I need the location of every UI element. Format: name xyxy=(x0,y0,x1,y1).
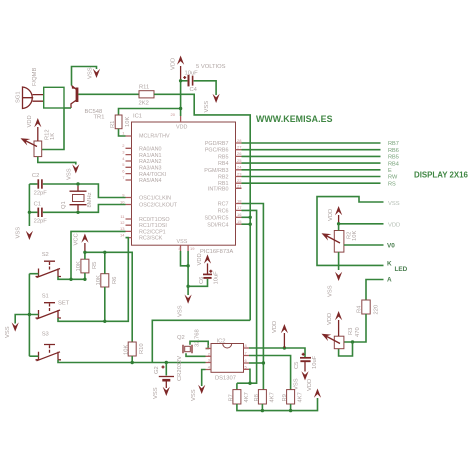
svg-text:12: 12 xyxy=(120,220,125,225)
svg-text:5: 5 xyxy=(245,364,248,369)
svg-text:R10: R10 xyxy=(139,343,145,354)
svg-text:RC3/SCK: RC3/SCK xyxy=(139,236,163,242)
wire R6 bottom xyxy=(104,287,106,321)
wire C1 to OSC2 xyxy=(43,205,126,213)
wire S3 left lead xyxy=(29,355,38,357)
svg-text:28: 28 xyxy=(237,138,242,143)
power VDD main 5V xyxy=(177,56,184,81)
svg-text:VSS: VSS xyxy=(191,389,197,401)
svg-text:3: 3 xyxy=(208,358,211,363)
resistor R1 xyxy=(115,115,122,129)
wire PIC VSS pins join xyxy=(181,251,189,295)
pin stub 20 top xyxy=(180,116,182,122)
wire R7 top xyxy=(236,383,238,389)
op-amp IC1 PIC16F873A box xyxy=(132,122,236,245)
wire R8 bottom xyxy=(261,404,263,411)
switch S2 xyxy=(36,261,62,277)
pin numbers right xyxy=(237,138,242,224)
svg-text:16: 16 xyxy=(237,212,242,217)
wire C2 left xyxy=(29,183,37,185)
ground VSS at R2 xyxy=(335,272,342,281)
transistor Q TR1 BC548 xyxy=(71,85,77,108)
wire V0 line xyxy=(344,244,384,246)
svg-text:CR2032V: CR2032V xyxy=(177,356,183,381)
svg-text:OSC1/CLKIN: OSC1/CLKIN xyxy=(139,196,171,202)
crystal Q1 xyxy=(70,186,87,211)
svg-text:R6: R6 xyxy=(112,277,118,284)
svg-text:14: 14 xyxy=(120,232,125,237)
node Q1 bottom junction xyxy=(76,211,79,214)
svg-text:RB4: RB4 xyxy=(218,161,229,167)
svg-text:27: 27 xyxy=(237,145,242,150)
wire display VDD line xyxy=(339,223,384,225)
svg-text:10K: 10K xyxy=(124,345,130,355)
wire S3 output line xyxy=(58,360,206,363)
wire base to R11 xyxy=(78,93,139,95)
ground VSS at C4 xyxy=(213,94,220,103)
wire DS SCL line xyxy=(249,362,263,364)
wire C1 left xyxy=(29,211,37,213)
power VDD at DS VCC xyxy=(281,324,288,348)
svg-text:21: 21 xyxy=(237,183,242,188)
svg-text:9: 9 xyxy=(122,192,125,197)
buzzer body box xyxy=(44,87,64,108)
wire C6 bottom xyxy=(188,279,207,286)
ground VSS at C5 xyxy=(301,371,308,380)
svg-text:10K: 10K xyxy=(352,231,358,241)
svg-text:R3: R3 xyxy=(348,328,354,335)
wire S2 output xyxy=(58,277,85,280)
svg-text:K: K xyxy=(387,261,392,268)
svg-text:VSS: VSS xyxy=(388,201,400,207)
svg-text:VDD: VDD xyxy=(171,58,177,70)
svg-text:VSS: VSS xyxy=(328,285,334,297)
wire R5 bottom xyxy=(84,273,86,279)
power VDD at R3 xyxy=(335,311,342,336)
node VDD-C4 junction xyxy=(179,79,182,82)
switch S3 xyxy=(36,345,62,361)
node R9 rail junction xyxy=(289,409,292,412)
svg-text:7: 7 xyxy=(245,351,248,356)
ground VSS at DS xyxy=(198,385,205,394)
node R5 top junction xyxy=(83,251,86,254)
wire R11 to main vertical xyxy=(154,94,250,320)
resistor R6 xyxy=(101,274,109,287)
resistor R9 xyxy=(287,390,295,404)
svg-text:PGM/RB3: PGM/RB3 xyxy=(204,168,228,174)
wire pullup bottom rail xyxy=(237,398,318,411)
svg-text:SET: SET xyxy=(58,301,70,307)
svg-text:10uF: 10uF xyxy=(312,355,318,369)
svg-text:4: 4 xyxy=(208,365,211,370)
svg-text:INT/RB0: INT/RB0 xyxy=(208,186,229,192)
wire RC5 to main vertical xyxy=(242,216,251,218)
svg-text:R8: R8 xyxy=(254,394,260,401)
node VSS pins junction xyxy=(186,264,189,267)
svg-text:VDD: VDD xyxy=(388,223,400,229)
svg-text:10uF: 10uF xyxy=(214,271,220,285)
svg-text:F/QMB: F/QMB xyxy=(32,68,38,86)
svg-text:RA1/AN1: RA1/AN1 xyxy=(139,153,161,159)
svg-text:4K7: 4K7 xyxy=(298,392,304,402)
svg-text:C1: C1 xyxy=(34,201,41,207)
svg-text:VDD: VDD xyxy=(27,115,33,127)
svg-text:VDD: VDD xyxy=(197,253,203,265)
ground VSS at caps xyxy=(26,231,33,240)
power VDD at rail xyxy=(314,389,321,398)
svg-text:1: 1 xyxy=(122,131,125,136)
svg-text:S1: S1 xyxy=(42,294,49,300)
node VDD-R1 junction xyxy=(179,107,182,110)
svg-text:RB4: RB4 xyxy=(388,161,399,167)
wire RB6 line xyxy=(242,149,381,151)
pin numbers DS left xyxy=(208,344,211,370)
svg-text:3: 3 xyxy=(122,149,125,154)
wire RC6 to R7 line xyxy=(237,210,257,383)
svg-text:8MHz: 8MHz xyxy=(87,192,93,207)
svg-text:6: 6 xyxy=(122,168,125,173)
svg-text:VDD: VDD xyxy=(272,321,278,333)
svg-text:VDD: VDD xyxy=(327,313,333,325)
svg-text:10uF: 10uF xyxy=(185,71,199,77)
pin stubs 8 19 bottom xyxy=(181,245,189,251)
svg-text:VDD: VDD xyxy=(307,379,313,391)
svg-text:R1: R1 xyxy=(110,121,116,128)
wire RB5 line xyxy=(242,155,381,157)
capacitor C5 xyxy=(300,353,311,361)
svg-text:20: 20 xyxy=(171,112,176,117)
svg-text:RC2/CCP1: RC2/CCP1 xyxy=(139,229,166,235)
svg-text:VSS: VSS xyxy=(88,67,94,79)
battery G2 xyxy=(159,377,174,389)
svg-text:RA2/AN2: RA2/AN2 xyxy=(139,159,161,165)
wire Q2 to X1 xyxy=(190,341,208,348)
wire R1 top line xyxy=(119,109,181,116)
potentiometer R12 xyxy=(19,135,42,157)
node VDD-C5 junction xyxy=(283,346,286,349)
svg-text:VSS: VSS xyxy=(16,227,22,239)
node S1 ground junction xyxy=(28,313,31,316)
pin stubs DS right xyxy=(244,348,250,369)
svg-text:VSS: VSS xyxy=(178,305,184,317)
pin names right column xyxy=(204,141,228,228)
svg-text:LED: LED xyxy=(395,266,408,273)
svg-text:VDD: VDD xyxy=(328,209,334,221)
wire C4 left xyxy=(181,80,188,82)
svg-text:RC1/T1OSI: RC1/T1OSI xyxy=(139,223,167,229)
svg-text:RA4/T0CKI: RA4/T0CKI xyxy=(139,172,166,178)
svg-text:5 VOLTIOS: 5 VOLTIOS xyxy=(196,64,226,70)
pin stubs right xyxy=(236,143,242,224)
pin names left column xyxy=(139,134,178,242)
svg-text:13: 13 xyxy=(120,226,125,231)
svg-text:VCC: VCC xyxy=(74,233,80,245)
svg-text:11: 11 xyxy=(120,214,125,219)
wire RC7 to SCL R8 xyxy=(242,204,264,390)
svg-text:22pF: 22pF xyxy=(34,219,48,225)
svg-text:RB5: RB5 xyxy=(218,154,229,160)
wire Q2 to X2 xyxy=(186,353,206,356)
wire S2 left lead xyxy=(29,273,38,275)
svg-text:4K7: 4K7 xyxy=(270,392,276,402)
resistor R11 xyxy=(139,91,154,98)
svg-text:R7: R7 xyxy=(229,394,235,401)
node Q1 top junction xyxy=(76,182,79,185)
svg-text:SG1: SG1 xyxy=(16,91,22,103)
node R3 wiper junction xyxy=(351,340,354,343)
power VCC at R5 xyxy=(81,234,88,253)
node VSS C6 junction xyxy=(186,285,189,288)
svg-text:2: 2 xyxy=(208,351,211,356)
svg-text:10K: 10K xyxy=(96,275,102,285)
wire R5 top xyxy=(84,252,86,259)
power VDD at R2 xyxy=(335,206,342,224)
wire DS SQW to R9 xyxy=(249,356,291,390)
wire A line to R4 xyxy=(366,280,384,301)
node RC4 junction xyxy=(249,223,252,226)
wire S1 output to RC3 xyxy=(58,238,128,322)
svg-text:VDD: VDD xyxy=(176,125,187,131)
power VDD at R12 xyxy=(34,118,41,141)
svg-text:10: 10 xyxy=(120,199,125,204)
svg-text:E: E xyxy=(388,168,392,174)
svg-text:32.768: 32.768 xyxy=(195,329,201,347)
node battery junction xyxy=(165,361,168,364)
pin numbers DS right xyxy=(245,343,248,369)
node R2 top junction xyxy=(337,222,340,225)
wire R2 top lead xyxy=(338,224,340,231)
svg-text:RB7: RB7 xyxy=(388,141,399,147)
svg-text:C6: C6 xyxy=(199,277,205,284)
resistor R7 xyxy=(233,390,241,404)
svg-text:RA5/AN4: RA5/AN4 xyxy=(139,178,161,184)
svg-text:22pF: 22pF xyxy=(34,191,48,197)
svg-text:22: 22 xyxy=(237,178,242,183)
ground VSS at battery xyxy=(163,387,170,396)
svg-text:IC1: IC1 xyxy=(133,114,142,120)
resistor R8 xyxy=(258,390,266,404)
node R6 bottom junction xyxy=(103,320,106,323)
svg-text:C4: C4 xyxy=(190,87,198,93)
svg-text:4: 4 xyxy=(122,156,125,161)
svg-text:RA0/AN0: RA0/AN0 xyxy=(139,146,161,152)
svg-text:Q1: Q1 xyxy=(61,201,67,209)
pin stubs left xyxy=(126,136,132,238)
pin numbers left xyxy=(120,131,125,238)
wire RS line xyxy=(242,182,381,184)
wire C4 right to VSS xyxy=(194,81,217,95)
node SCL junction xyxy=(262,361,265,364)
node R8 rail junction xyxy=(261,409,264,412)
svg-text:RA3/AN3: RA3/AN3 xyxy=(139,165,161,171)
svg-text:17: 17 xyxy=(237,205,242,210)
resistor R4 xyxy=(362,300,370,314)
svg-text:PIC16F873A: PIC16F873A xyxy=(200,249,233,255)
svg-text:470: 470 xyxy=(355,327,361,337)
svg-text:VSS: VSS xyxy=(5,326,11,338)
capacitor C1 xyxy=(38,208,42,217)
crystal Q2 xyxy=(183,345,192,353)
svg-text:8: 8 xyxy=(245,343,248,348)
wire DS VCC line xyxy=(249,348,305,358)
svg-text:220: 220 xyxy=(374,305,380,315)
node SDA junction xyxy=(248,382,251,385)
polarity plus battery xyxy=(162,366,165,369)
svg-text:OSC2/CLKOUT: OSC2/CLKOUT xyxy=(139,203,178,209)
wire buzzer bottom to pot wiper xyxy=(42,108,64,150)
wire RC4 to main vertical xyxy=(242,223,251,225)
svg-text:SDO/RC5: SDO/RC5 xyxy=(205,215,229,221)
svg-text:7: 7 xyxy=(122,175,125,180)
svg-text:G2: G2 xyxy=(154,366,160,374)
svg-text:TR1: TR1 xyxy=(94,115,105,121)
svg-text:R5: R5 xyxy=(92,262,98,269)
svg-text:VSS: VSS xyxy=(177,239,188,245)
wire emitter to buzzer xyxy=(64,107,71,109)
svg-text:19: 19 xyxy=(190,246,195,251)
svg-text:RC0/T1OSO: RC0/T1OSO xyxy=(139,217,170,223)
svg-text:C5: C5 xyxy=(294,362,300,369)
wire R9 bottom xyxy=(290,404,292,411)
svg-text:1K: 1K xyxy=(50,133,56,140)
svg-text:18: 18 xyxy=(237,198,242,203)
wire R12 bottom xyxy=(38,157,76,165)
svg-text:RC6: RC6 xyxy=(218,208,229,214)
svg-text:RB6: RB6 xyxy=(388,148,399,154)
wire R6 top xyxy=(104,252,106,273)
svg-text:DISPLAY 2X16: DISPLAY 2X16 xyxy=(414,171,469,180)
svg-text:S3: S3 xyxy=(42,332,49,338)
svg-text:RS: RS xyxy=(388,181,396,187)
wire R2 bottom xyxy=(338,252,340,270)
wire S3 link to RC5 xyxy=(152,320,250,362)
wire RB7 line xyxy=(242,142,381,144)
svg-text:RB2: RB2 xyxy=(218,175,229,181)
svg-text:PGC/RB6: PGC/RB6 xyxy=(205,148,229,154)
svg-text:2K2: 2K2 xyxy=(139,101,149,107)
svg-text:23: 23 xyxy=(237,171,242,176)
svg-text:RC7: RC7 xyxy=(218,202,229,208)
svg-text:R9: R9 xyxy=(282,394,288,401)
notch DS1307 xyxy=(223,344,232,349)
ground VSS at collector xyxy=(93,69,100,78)
svg-text:26: 26 xyxy=(237,151,242,156)
wire E line xyxy=(242,169,381,171)
svg-text:SDI/RC4: SDI/RC4 xyxy=(207,222,228,228)
wire collector to VSS xyxy=(72,67,97,86)
svg-text:25: 25 xyxy=(237,158,242,163)
speaker SG1 xyxy=(23,87,44,109)
svg-text:IC2: IC2 xyxy=(217,339,226,345)
wire R4 bottom to wiper xyxy=(344,314,366,342)
switch S1 xyxy=(36,303,62,319)
wire S1 left lead to ground xyxy=(15,315,38,324)
svg-text:VSS: VSS xyxy=(153,387,159,399)
node R5 bottom junction xyxy=(83,278,86,281)
wire S2 node to RC2 xyxy=(71,231,126,279)
op-amp IC2 DS1307 box xyxy=(211,344,244,373)
wire battery top xyxy=(165,363,167,376)
wire VDD switch rail xyxy=(85,252,132,342)
power VDD at C6 xyxy=(204,254,211,274)
svg-text:10K: 10K xyxy=(125,117,131,127)
svg-text:VSS: VSS xyxy=(294,378,300,390)
potentiometer R3 xyxy=(320,330,344,348)
node C1 ground junction xyxy=(28,211,31,214)
potentiometer R2 xyxy=(320,230,344,252)
wire caps common ground xyxy=(28,184,30,226)
svg-text:S2: S2 xyxy=(42,252,49,258)
svg-text:5: 5 xyxy=(122,162,125,167)
node RC5 junction xyxy=(249,216,252,219)
node R6 top junction xyxy=(103,251,106,254)
node R10 bottom junction xyxy=(131,361,134,364)
svg-text:WWW.KEMISA.ES: WWW.KEMISA.ES xyxy=(256,114,333,124)
svg-text:R11: R11 xyxy=(139,85,149,91)
wire switches common ground xyxy=(28,274,30,357)
wire C5 bottom xyxy=(304,362,306,372)
wire R3 bottom loop xyxy=(339,342,353,356)
resistor R10 xyxy=(128,342,136,356)
svg-text:MCLR#/THV: MCLR#/THV xyxy=(139,134,170,140)
ground VSS at R12 xyxy=(72,164,79,173)
svg-text:RB5: RB5 xyxy=(388,155,399,161)
svg-text:DS1307: DS1307 xyxy=(215,376,236,382)
svg-text:RW: RW xyxy=(388,175,398,181)
wire R10 bottom xyxy=(131,356,133,363)
svg-text:V0: V0 xyxy=(387,243,395,250)
pin stubs DS left xyxy=(206,349,212,370)
wire R1 bottom to MCLR xyxy=(119,129,126,136)
svg-text:15: 15 xyxy=(237,219,242,224)
capacitor C4 xyxy=(183,75,192,87)
svg-text:4K7: 4K7 xyxy=(244,392,250,402)
svg-text:24: 24 xyxy=(237,165,242,170)
svg-text:VSS: VSS xyxy=(204,101,210,113)
svg-text:C2: C2 xyxy=(32,173,39,179)
wire C2 to OSC1 xyxy=(43,184,126,198)
svg-text:VSS: VSS xyxy=(67,168,73,180)
wire RB4 line xyxy=(242,162,381,164)
svg-text:6: 6 xyxy=(245,358,248,363)
svg-text:PGD/RB7: PGD/RB7 xyxy=(205,141,229,147)
wire display VSS to K xyxy=(317,197,384,266)
capacitor C2 xyxy=(38,179,42,188)
svg-text:1: 1 xyxy=(208,344,211,349)
wire DS SDA line xyxy=(249,369,250,383)
wire DS GND to VSS xyxy=(202,370,206,387)
svg-text:A: A xyxy=(387,277,392,284)
wire VDD rail to pin20 xyxy=(180,81,182,116)
svg-text:Q2: Q2 xyxy=(177,335,185,341)
node S2-RC2 junction xyxy=(69,278,72,281)
resistor R5 xyxy=(81,259,89,273)
svg-text:2: 2 xyxy=(122,143,125,148)
svg-text:10K: 10K xyxy=(76,261,82,271)
ground VSS at S1 xyxy=(12,322,19,331)
capacitor C6 xyxy=(203,270,212,278)
wire RW line xyxy=(242,176,381,178)
svg-text:R4: R4 xyxy=(357,305,363,313)
ground VSS below PIC xyxy=(185,295,192,304)
